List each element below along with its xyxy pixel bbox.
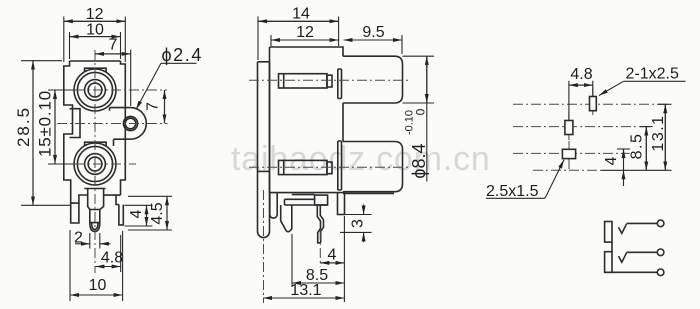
dim 2 extension lines <box>90 233 100 249</box>
side view: seat line under barrel <box>343 192 394 194</box>
front view dimensions <box>21 17 197 302</box>
dim phi8.4 extension of barrel bottom edge <box>403 102 435 104</box>
front view: small hole outer <box>123 116 137 130</box>
svg-text:9.5: 9.5 <box>362 24 384 41</box>
footprint row line 2 <box>513 126 651 128</box>
front view: center pin dome tip <box>90 223 100 232</box>
side view: front panel plate with rounded bottom <box>258 62 270 238</box>
side view: top slot step <box>327 75 332 87</box>
front view: left leg <box>71 203 79 223</box>
phi2.4 leader <box>136 63 161 109</box>
dim 28.5 line <box>32 61 34 206</box>
svg-text:0: 0 <box>414 108 428 115</box>
jack J1 tip contact check <box>619 224 627 234</box>
svg-text:4: 4 <box>128 209 145 218</box>
dim 4 line <box>320 262 344 264</box>
centerline through small hole <box>57 123 168 125</box>
footprint row line 1 <box>513 103 668 105</box>
dim 4.8 line <box>569 84 593 86</box>
centerline bottom barrel <box>249 166 411 168</box>
side view: middle crank contact right edge <box>320 205 323 243</box>
front view: bottom jack outer circle <box>74 143 116 185</box>
side view: top jack center slot <box>279 74 328 88</box>
pad C (2.5x1.5 slot) <box>562 149 575 158</box>
front view dimension texts <box>14 6 203 294</box>
side view: right leg <box>338 193 345 215</box>
dim 4 bottom right extension <box>343 216 345 302</box>
svg-text:2-1x2.5: 2-1x2.5 <box>626 66 679 83</box>
svg-text:2.5x1.5: 2.5x1.5 <box>486 183 539 200</box>
svg-text:4: 4 <box>328 247 337 264</box>
side view: bottom contact strip <box>338 141 342 190</box>
phi2.4 leader underline <box>161 62 197 64</box>
side view: left snap leg <box>281 205 292 232</box>
side view: top jack barrel <box>343 56 403 103</box>
front view: flange edge behind ear <box>124 108 126 140</box>
front view: right leg <box>116 195 123 225</box>
dim 3 ticks <box>340 215 372 233</box>
wire joining sleeve bodies <box>611 242 613 252</box>
dim 15 extension ticks <box>48 90 74 164</box>
front view: body right side upper profile <box>121 61 126 108</box>
side view centerlines <box>249 80 411 303</box>
front view: top jack outer circle <box>74 69 116 111</box>
front view: right shelf line <box>104 194 121 196</box>
dim 4.8 extension lines <box>569 81 593 120</box>
side view: bottom jack center slot <box>279 160 328 174</box>
side view dimension texts <box>290 6 429 300</box>
front view: tab above bottom jack <box>85 142 107 146</box>
dim 10 bottom extension lines <box>70 230 123 301</box>
pad A (1x2.5 slot) <box>590 97 597 111</box>
dim phi8.4 line <box>426 56 428 103</box>
centerline vertical through jacks and pin <box>94 50 96 273</box>
front view: mounting ear around small hole <box>110 108 147 140</box>
side view: top slot inner line <box>283 74 285 88</box>
front view centerlines <box>57 50 168 273</box>
side view: terminal block <box>315 195 328 205</box>
dim 12 extension lines <box>64 17 126 63</box>
dim 9.5 extension line <box>401 35 403 54</box>
front view: pin dome inner arc <box>92 223 98 230</box>
dim 9.5 line <box>344 39 403 41</box>
svg-text:4: 4 <box>603 156 620 165</box>
dim 3 arrows outside <box>363 205 365 215</box>
dim 4.8 line <box>95 266 120 268</box>
jack J1 sleeve body <box>605 222 612 243</box>
pad B centerline vertical <box>568 112 570 140</box>
side view: base bottom edge <box>285 204 328 206</box>
pad B (1x2.5 slot) <box>565 121 573 135</box>
side view: base second step <box>285 199 314 205</box>
svg-text:13.1: 13.1 <box>650 114 667 151</box>
front view: top jack ring circle <box>77 72 112 107</box>
dim 13.1 top tick <box>658 103 672 105</box>
svg-text:7: 7 <box>145 102 162 111</box>
svg-text:-0.10: -0.10 <box>404 110 416 135</box>
dim 10 bottom line <box>70 294 123 296</box>
svg-text:4.8: 4.8 <box>101 250 123 267</box>
dim 7 top line <box>95 53 131 55</box>
jack J2 tip contact wire <box>627 251 658 253</box>
side view: main body outline <box>270 47 344 193</box>
dim 4 right ticks <box>125 205 153 226</box>
dim 4 line <box>623 149 625 170</box>
svg-text:10: 10 <box>86 21 104 38</box>
front view: body right side lower profile <box>121 139 126 195</box>
dim 4.5 right line <box>166 196 168 230</box>
svg-text:28.5: 28.5 <box>14 106 33 147</box>
dim 7 top extension line <box>130 50 132 107</box>
dim 13.1 line <box>664 104 666 170</box>
dim 8.5 extension <box>291 234 293 287</box>
svg-text:4.5: 4.5 <box>149 202 166 224</box>
front view: small hole inner <box>125 118 136 129</box>
dim 8.5 line <box>645 127 647 171</box>
jack J2 tip contact check <box>619 253 627 263</box>
front view: center pin shaft <box>90 210 100 223</box>
label 2.5x1.5 leader <box>545 160 564 199</box>
front view: waist notch left between jacks <box>70 109 81 138</box>
pad C centerline vertical <box>568 141 570 171</box>
footprint baseline <box>602 169 672 171</box>
centerline through bottom jack <box>57 163 136 165</box>
dim 12 line <box>271 39 339 41</box>
footprint row line 3 <box>513 152 630 154</box>
front view: top jack inner circle <box>88 83 102 97</box>
svg-text:7: 7 <box>109 36 118 53</box>
side view dimensions <box>258 17 434 303</box>
centerline through top jack <box>57 89 167 91</box>
dim 2 line left <box>75 243 90 245</box>
dim 4 top tick <box>617 148 630 150</box>
dim phi8.4 line tail for text <box>426 103 428 182</box>
side view: bottom slot step <box>327 162 332 174</box>
label 2.5x1.5 underline <box>486 197 545 199</box>
svg-text:13.1: 13.1 <box>290 282 321 299</box>
side view: lug below body left <box>270 193 277 219</box>
svg-text:15±0.10: 15±0.10 <box>36 90 55 157</box>
svg-text:4.8: 4.8 <box>570 66 592 83</box>
svg-text:8.5: 8.5 <box>629 133 646 160</box>
front view: top jack middle circle <box>85 80 106 101</box>
side view: top contact strip <box>338 69 342 99</box>
side view: bottom jack barrel <box>343 142 403 192</box>
dim 14 extension lines <box>258 17 339 61</box>
front view: bottom jack inner circle <box>88 157 102 171</box>
terminal 1 circle <box>657 220 664 227</box>
label 2-1x2.5 underline <box>623 80 685 82</box>
centerline middle contact <box>319 230 321 267</box>
dim 7 right vertical line <box>164 90 166 123</box>
dim 4 bottom outside arrow <box>623 170 625 186</box>
front view: tab above top jack <box>85 68 107 72</box>
dim 13.1 line <box>263 297 344 299</box>
label 2-1x2.5 leader <box>599 81 623 95</box>
side view: middle crank contact left edge <box>317 205 320 243</box>
dim 12 line <box>64 20 126 22</box>
dim 4.5 right ticks <box>128 196 172 230</box>
dim 14 line <box>258 20 339 22</box>
front view: center pin base <box>88 189 104 210</box>
svg-text:2: 2 <box>74 230 83 247</box>
front view: body left side profile <box>64 61 88 203</box>
jack J1 tip contact wire <box>627 222 658 224</box>
dim 4 right line <box>146 205 148 226</box>
dim 4.8 extension line <box>120 235 122 272</box>
svg-text:ϕ8.4: ϕ8.4 <box>409 143 429 178</box>
side view: plate cross line <box>258 170 270 172</box>
front view: bottom jack middle circle <box>85 154 106 175</box>
svg-text:3: 3 <box>350 219 367 228</box>
dim 2 line right <box>100 243 111 245</box>
wire common ground to terminal 3 <box>605 271 658 273</box>
pad A centerline vertical <box>592 87 594 117</box>
svg-text:10: 10 <box>89 277 107 294</box>
dim 15 line <box>54 90 56 164</box>
front view: bottom jack ring circle <box>77 146 112 181</box>
centerline top barrel <box>249 79 411 81</box>
dim 8.5 line <box>292 282 344 284</box>
svg-text:ϕ2.4: ϕ2.4 <box>162 45 204 65</box>
dim 10 line <box>70 36 121 38</box>
terminal 3 circle <box>657 269 664 276</box>
jack J2 sleeve body <box>605 252 612 273</box>
front view: pin shelf under bottom jack <box>84 188 105 190</box>
terminal 2 circle <box>657 249 664 256</box>
dim 28.5 extension ticks <box>21 61 70 206</box>
front view: ear left edge stub <box>110 108 114 146</box>
footprint row line 4 <box>533 169 602 171</box>
centerline plate leg <box>263 190 265 303</box>
dim 12 extension line <box>270 35 272 46</box>
dim 8.5 top tick <box>640 126 653 128</box>
dim 10 extension lines <box>70 32 121 59</box>
side view: bottom slot inner line <box>283 160 285 174</box>
side view: base step edge <box>292 194 315 196</box>
svg-text:14: 14 <box>292 6 310 23</box>
svg-text:12: 12 <box>296 24 314 41</box>
dim phi8.4 extension of barrel top edge <box>403 55 435 57</box>
front view: body top edge <box>70 60 121 62</box>
